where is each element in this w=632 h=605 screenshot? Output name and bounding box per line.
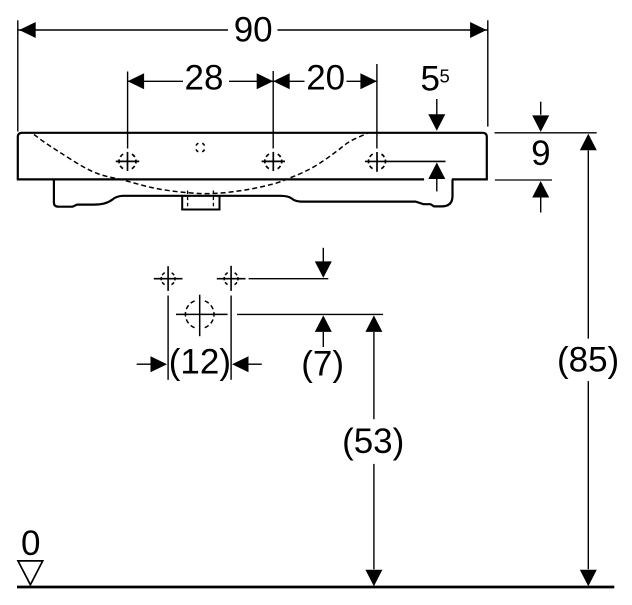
trap hidden line right bbox=[212, 191, 214, 209]
overflow hole dashed circle bbox=[200, 143, 205, 152]
dim 28 line right segment bbox=[229, 80, 273, 82]
tap hole symbol 2 horizontal centerline bbox=[262, 160, 285, 162]
hidden tap hole A2 circle bbox=[231, 272, 238, 286]
hidden tap hole A2 horizontal centerline bbox=[217, 278, 246, 280]
dim 28/20 shared extension line (to tap hole 2) bbox=[272, 71, 274, 149]
tap hole symbol 1 horizontal centerline bbox=[116, 160, 139, 162]
bowl hidden contour curve bbox=[34, 133, 368, 194]
hidden tap hole A1 vertical centerline bbox=[167, 266, 169, 291]
svg-text:(85): (85) bbox=[557, 341, 619, 380]
dim 9 extension line top bbox=[495, 132, 597, 134]
dim 90 line right segment bbox=[278, 29, 488, 31]
siphon dashed circle bbox=[200, 300, 214, 329]
svg-text:28: 28 bbox=[185, 58, 224, 97]
dim 12 left arrow pointing right bbox=[151, 356, 168, 372]
tap hole symbol 3 centerline extended right for dim 5.5 bbox=[365, 160, 446, 162]
hidden tap hole A1 circle bbox=[168, 272, 175, 286]
dim 20 arrow right bbox=[360, 73, 377, 89]
tap hole symbol 1 circle bbox=[128, 153, 137, 170]
tap hole symbol 3 circle bbox=[377, 153, 386, 170]
dim 53 line upper segment bbox=[373, 332, 375, 419]
hidden tap hole A2 vertical centerline bbox=[230, 266, 232, 291]
svg-text:90: 90 bbox=[234, 10, 273, 49]
down arrow tail to line A bbox=[322, 248, 324, 262]
drain trap cover bbox=[182, 196, 219, 210]
dim 90 extension line left bbox=[17, 20, 19, 131]
dim 12 left arrow tail bbox=[137, 363, 152, 365]
dim 9 down arrow tail bbox=[540, 102, 542, 115]
dim 5.5 down arrow to rim top bbox=[428, 114, 445, 131]
datum level triangle bbox=[18, 561, 43, 585]
dim 12 right arrow tail bbox=[249, 363, 262, 365]
svg-text:0: 0 bbox=[21, 524, 40, 563]
dim 28 arrow right bbox=[257, 73, 274, 89]
trap hidden line left bbox=[187, 191, 189, 209]
floor line bbox=[17, 586, 614, 589]
svg-text:5: 5 bbox=[439, 66, 449, 87]
dim 5.5 up arrow to tap centerline bbox=[428, 163, 445, 180]
dim 53 line lower segment bbox=[373, 464, 375, 569]
dim 53 down arrow to floor bbox=[365, 570, 382, 587]
extension line below tap A2 bbox=[230, 296, 232, 380]
dim 85 line lower segment bbox=[587, 381, 589, 569]
tap height reference line A bbox=[249, 278, 329, 280]
svg-text:(12): (12) bbox=[169, 342, 231, 381]
dim 9 extension line bottom bbox=[495, 179, 552, 181]
svg-text:5: 5 bbox=[420, 60, 439, 99]
svg-text:(7): (7) bbox=[301, 344, 344, 383]
dim 85 up arrow bbox=[580, 134, 597, 151]
dim 28 arrow left bbox=[128, 73, 145, 89]
dim 9 down arrow bbox=[532, 115, 549, 131]
dim 5.5 down arrow tail bbox=[436, 99, 438, 115]
svg-text:20: 20 bbox=[306, 58, 345, 97]
dim 20 line left segment bbox=[273, 80, 304, 82]
siphon height reference line B bbox=[237, 313, 383, 315]
dim 90 line left segment bbox=[18, 29, 228, 31]
dim 20 line right segment bbox=[347, 80, 377, 82]
tap hole symbol 2 vertical centerline bbox=[272, 152, 274, 171]
dim 28 extension line left (to tap hole 1) bbox=[127, 72, 129, 149]
dim 7 up arrow tail bbox=[322, 332, 324, 347]
svg-text:(53): (53) bbox=[342, 422, 404, 461]
svg-text:9: 9 bbox=[531, 134, 550, 173]
dim 85 down arrow to floor bbox=[580, 570, 597, 587]
dim 20 extension line right (to tap hole 3) bbox=[376, 64, 378, 149]
tap hole symbol 1 vertical centerline bbox=[127, 152, 129, 171]
washbasin rim bottom edge left segment bbox=[17, 178, 424, 180]
dim 9 up arrow bbox=[532, 181, 549, 198]
dim 20 arrow left bbox=[273, 73, 290, 89]
siphon horizontal centerline bbox=[176, 313, 228, 315]
dim 9 up arrow tail bbox=[540, 198, 542, 213]
extension line below tap A1 bbox=[167, 296, 169, 380]
dim 28 line left segment bbox=[128, 80, 183, 82]
dim 53 up arrow bbox=[365, 315, 382, 332]
dim 5.5 up arrow tail bbox=[436, 179, 438, 191]
washbasin rim bottom edge right segment bbox=[452, 178, 488, 180]
tap hole symbol 3 vertical centerline bbox=[376, 152, 378, 172]
dim 85 line upper segment bbox=[587, 150, 589, 338]
dim 90 arrow right bbox=[470, 22, 487, 38]
siphon vertical centerline bbox=[199, 295, 201, 337]
dim 12 right arrow pointing left bbox=[232, 356, 249, 372]
dim 7 up arrow bbox=[315, 315, 332, 332]
down arrow to line A bbox=[315, 261, 332, 278]
washbasin rim outline bbox=[18, 133, 487, 180]
washbasin skirt/apron outline bbox=[54, 179, 453, 206]
tap hole symbol 2 circle bbox=[273, 153, 282, 170]
dim 90 arrow left bbox=[19, 22, 36, 38]
dim 90 extension line right bbox=[487, 20, 489, 126]
hidden tap hole A1 horizontal centerline bbox=[154, 278, 183, 280]
